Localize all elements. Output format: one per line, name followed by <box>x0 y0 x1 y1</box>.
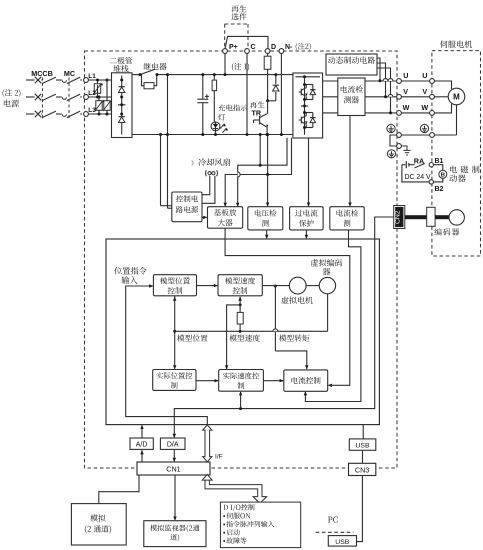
svg-text:D: D <box>271 44 276 51</box>
encoder cable 2 <box>435 215 449 219</box>
DA box <box>160 438 185 449</box>
model bus line <box>175 330 328 333</box>
ground terminal motor <box>430 133 435 138</box>
I/F interface arrow <box>203 425 212 462</box>
AD box <box>130 438 153 449</box>
cooling fan symbol <box>206 170 218 176</box>
DC 24V label <box>405 174 431 181</box>
actual speed control label <box>223 372 259 388</box>
svg-text:CN3: CN3 <box>355 466 369 475</box>
input wires to diode stack <box>88 80 111 114</box>
command input label <box>114 267 146 284</box>
svg-text:U: U <box>422 71 427 80</box>
speed loop tap <box>239 391 242 408</box>
AD label <box>136 442 148 449</box>
model position label <box>177 335 207 342</box>
servo amplifier enclosure (dashed) <box>85 51 398 468</box>
control block box <box>106 239 379 425</box>
encoder cable 1 <box>405 215 427 219</box>
U phase wire <box>323 80 397 82</box>
brake coil B <box>439 170 447 178</box>
CN1 label <box>166 465 180 474</box>
USB box <box>349 439 376 450</box>
control power tap wires <box>159 73 172 208</box>
analog monitor box <box>144 521 206 547</box>
I/F label <box>215 454 223 461</box>
svg-text:TR: TR <box>252 109 262 118</box>
regen diode <box>266 73 279 102</box>
speed loop resistor <box>237 305 243 331</box>
voltage det to control block <box>265 230 268 239</box>
svg-text:C: C <box>251 44 256 51</box>
main capacitor C1 <box>197 73 209 136</box>
IGBT inverter box <box>293 73 323 138</box>
hop model bus over torque <box>273 329 278 331</box>
CN1 connector <box>137 462 210 475</box>
voltage detection feed <box>266 175 269 207</box>
model speed control label <box>225 277 255 294</box>
svg-text:V: V <box>403 87 408 96</box>
base amp output loop <box>225 228 350 387</box>
PE symbol motor-side <box>420 124 428 132</box>
USB wire from control <box>362 425 364 439</box>
ground link wire <box>401 134 429 136</box>
wire speed to virtual motor <box>262 285 289 287</box>
current detection box <box>330 207 364 230</box>
varistor L1-L3 <box>103 80 113 114</box>
PC dashed line <box>316 531 354 533</box>
P+ to D jumper wire (note1) <box>225 36 268 48</box>
U link wire <box>401 80 429 82</box>
charge lamp LED <box>211 122 228 136</box>
PE symbol amp-side <box>387 124 395 132</box>
svg-text:A/D: A/D <box>136 442 148 449</box>
virtual motor label <box>281 296 312 303</box>
dynamic brake circuit label <box>328 56 375 63</box>
regen transistor TR <box>254 101 269 136</box>
svg-text:USB: USB <box>335 539 349 546</box>
power source label (note2) <box>3 89 21 107</box>
relay RY contact and coil <box>139 69 159 89</box>
motor feed wires <box>434 81 451 113</box>
terminal U motor-side <box>422 71 434 83</box>
current detection label <box>337 209 359 226</box>
terminal P+ <box>223 44 238 53</box>
P bus wire <box>132 74 293 76</box>
virtual motor <box>289 277 306 294</box>
svg-text:CN1: CN1 <box>166 465 180 474</box>
wire brake to B2 <box>433 178 442 182</box>
analog label <box>85 514 111 533</box>
charge lamp label <box>218 104 247 120</box>
diode stack label <box>110 57 133 72</box>
cooling fan label <box>191 158 230 166</box>
DA label <box>167 442 179 449</box>
svg-text:P+: P+ <box>229 44 238 51</box>
CN3 label <box>355 466 369 475</box>
PC USB box <box>328 536 356 547</box>
model speed label <box>230 334 260 341</box>
terminal B2 <box>429 180 443 194</box>
dynamic brake circuit box <box>326 54 377 75</box>
monitor output arrow <box>173 475 176 521</box>
cooling fan wires <box>202 176 215 204</box>
svg-text:MC: MC <box>64 69 75 78</box>
digital IO arrow <box>202 474 266 503</box>
encoder <box>449 210 464 225</box>
current detector label <box>341 86 363 104</box>
svg-text:B2: B2 <box>435 186 444 193</box>
current control label <box>291 377 320 384</box>
wire virtual motor to encoder <box>306 285 319 287</box>
svg-text:U: U <box>403 71 408 80</box>
svg-text:M: M <box>453 93 460 102</box>
model torque label <box>279 335 309 342</box>
terminal V amp-side <box>397 87 409 99</box>
svg-text:B: B <box>441 173 445 179</box>
varistor L2-L3a <box>95 97 105 114</box>
overcurrent feed <box>307 138 310 207</box>
crossover hops on U and V <box>383 79 393 97</box>
servo motor enclosure (dashed) <box>432 51 481 256</box>
base amplifier box <box>208 207 243 229</box>
servo motor M <box>448 88 465 105</box>
current control box <box>284 370 328 391</box>
svg-text:L3: L3 <box>88 107 96 114</box>
charge lamp resistor <box>212 73 217 122</box>
CN2 connector <box>394 206 405 229</box>
terminal N- <box>279 43 311 54</box>
svg-text:DC 24 V: DC 24 V <box>405 174 431 181</box>
brake relay contact RA <box>402 157 425 169</box>
note1 label <box>232 63 249 71</box>
CN3 to PC wire <box>357 476 362 542</box>
IGBT inverter internals <box>296 75 321 134</box>
position command input wire <box>126 284 208 424</box>
PE symbol lower <box>387 150 395 158</box>
model speed control box <box>218 275 262 296</box>
terminal L1 <box>84 73 97 82</box>
analog monitor label <box>150 525 199 542</box>
digital IO box <box>220 502 300 547</box>
varistor L1-L2 <box>93 80 103 97</box>
analog box <box>71 504 126 545</box>
svg-text:L2: L2 <box>88 90 96 97</box>
analog output wire <box>99 475 139 504</box>
junction dots input <box>96 79 109 116</box>
svg-text:D/A: D/A <box>167 442 179 449</box>
ground jumper wire <box>390 135 397 146</box>
base amp drive arrow <box>202 216 207 219</box>
control circuit power supply label <box>176 195 198 213</box>
current det output loop <box>304 230 361 402</box>
AD to CN1 wire <box>140 450 143 462</box>
terminal D <box>265 44 276 53</box>
V phase wire <box>323 96 397 98</box>
svg-text:USB: USB <box>356 442 370 449</box>
terminal B1 <box>429 158 443 167</box>
base amplifier label <box>214 209 236 226</box>
bus tap riser 1 <box>259 133 262 167</box>
current detector box <box>338 78 365 116</box>
virtual encoder label <box>311 259 342 275</box>
regen option dashed bracket <box>225 24 248 48</box>
N bus wire <box>132 134 293 136</box>
overcurrent to control block <box>305 230 308 239</box>
model position control box <box>153 275 196 296</box>
terminal L3 <box>84 107 97 116</box>
regen option label <box>231 5 246 20</box>
relay label <box>144 63 167 70</box>
dynamic brake drop wires <box>377 58 392 114</box>
DA output arrow <box>173 449 176 462</box>
MCCB+MC switch row L3 <box>26 111 82 118</box>
svg-text:L1: L1 <box>88 73 96 80</box>
actual position control box <box>153 370 196 391</box>
svg-text:V: V <box>422 87 427 96</box>
P+ drop wire <box>224 53 227 76</box>
MCCB+MC switch row L2 <box>26 94 82 101</box>
overcurrent protection label <box>295 209 317 226</box>
MC label <box>64 69 75 78</box>
voltage detection label <box>255 210 277 227</box>
hop gate wire B over A <box>238 172 240 177</box>
svg-text:B1: B1 <box>435 158 444 165</box>
virtual encoder drop <box>327 294 329 331</box>
digital IO label <box>223 504 274 544</box>
terminal W amp-side <box>397 103 410 115</box>
svg-text:CN2: CN2 <box>394 210 401 224</box>
control circuit power supply box <box>172 192 202 222</box>
svg-text:N-: N- <box>285 44 293 51</box>
pos to speed arrow <box>196 379 219 382</box>
CN3 connector <box>349 463 376 475</box>
encoder feedback loop <box>173 217 394 438</box>
motor ground wire <box>434 105 456 135</box>
N- drop wire <box>280 53 283 136</box>
PC USB label <box>335 539 349 546</box>
encoder label <box>434 228 459 235</box>
voltage detection box <box>248 207 283 230</box>
gate drive wire B <box>236 138 287 207</box>
model position feedback line <box>173 296 176 370</box>
regen TR label <box>250 101 265 117</box>
ground terminal lower <box>397 144 402 149</box>
USB to CN3 wire <box>362 450 364 463</box>
svg-text:RA: RA <box>414 157 424 166</box>
svg-text:W: W <box>403 103 410 112</box>
AD input arrow <box>140 425 143 438</box>
USB label <box>356 442 370 449</box>
diode stack D-stack <box>112 73 133 138</box>
model speed tap <box>225 297 242 370</box>
servo motor label <box>440 40 472 48</box>
svg-text:I/F: I/F <box>215 454 223 461</box>
model position control label <box>160 277 190 294</box>
terminal C <box>245 44 256 53</box>
encoder cable connector <box>427 207 435 226</box>
terminal U amp-side <box>397 71 409 83</box>
MCCB+MC switch row L1 <box>26 77 82 84</box>
bus tap riser 2 <box>266 133 269 176</box>
W phase wire <box>323 112 397 114</box>
overcurrent protection box <box>290 207 324 230</box>
virtual encoder <box>319 277 335 293</box>
MCCB label <box>31 69 53 78</box>
svg-text:W: W <box>421 103 428 112</box>
model torque tap <box>274 285 309 370</box>
speed to current arrow <box>263 379 283 382</box>
MCCB linkage dashed <box>43 78 70 120</box>
electromagnetic brake label <box>449 166 479 182</box>
wire B1 to brake <box>433 165 442 171</box>
PC label <box>328 517 338 523</box>
gate drive wire A <box>224 138 292 207</box>
current detection feed <box>348 116 351 207</box>
earth ground symbol <box>401 146 410 155</box>
C drop wire <box>246 53 249 136</box>
ground terminal amp <box>397 133 402 138</box>
model pos to speed arrow <box>197 284 219 287</box>
actual position control label <box>156 372 192 388</box>
regen resistor <box>264 53 271 100</box>
terminal L2 <box>84 90 97 99</box>
actual speed control box <box>219 370 264 392</box>
svg-text:MCCB: MCCB <box>31 69 53 78</box>
terminal W motor-side <box>421 103 434 115</box>
terminal V motor-side <box>422 87 434 99</box>
V link wire <box>401 96 429 98</box>
W link wire <box>401 112 429 114</box>
DC24V loop wire <box>402 165 429 182</box>
